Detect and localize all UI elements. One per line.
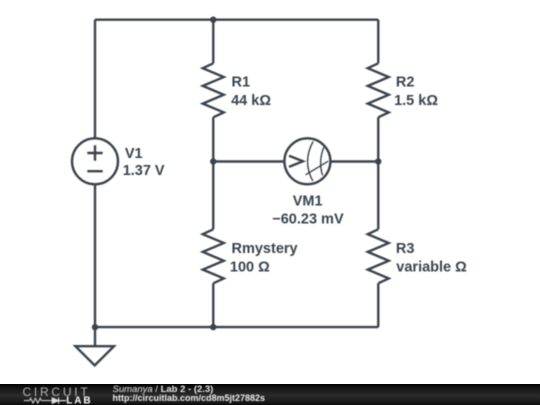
- wire right upper: [377, 20, 379, 64]
- node mid left: [210, 158, 216, 164]
- wire right lower: [377, 283, 379, 327]
- V1 minus sign: [87, 170, 102, 172]
- node top middle: [210, 17, 216, 23]
- VM1 meter arc right: [321, 147, 324, 175]
- wire middle upper: [212, 20, 214, 64]
- resistor Rmystery: [203, 229, 224, 283]
- svg-text:http://circuitlab.com/cd8m5jt2: http://circuitlab.com/cd8m5jt27882s: [113, 393, 266, 403]
- V1 plus sign: [87, 145, 102, 160]
- resistor R3: [368, 229, 389, 283]
- svg-text:1.5 kΩ: 1.5 kΩ: [394, 93, 438, 109]
- svg-text:−60.23 mV: −60.23 mV: [272, 211, 344, 227]
- wire left lower: [94, 184, 96, 327]
- resistor R2: [368, 63, 389, 117]
- wire voltmeter left: [213, 160, 284, 162]
- svg-text:VM1: VM1: [293, 194, 323, 210]
- svg-text:V1: V1: [125, 146, 143, 162]
- voltmeter VM1 circle: [284, 138, 330, 184]
- svg-text:LAB: LAB: [66, 396, 92, 405]
- wire voltmeter right: [330, 160, 378, 162]
- svg-text:variable Ω: variable Ω: [396, 259, 467, 275]
- svg-text:44 kΩ: 44 kΩ: [231, 93, 271, 109]
- node bottom middle: [210, 324, 216, 330]
- svg-text:R3: R3: [396, 241, 415, 257]
- wire middle lower: [212, 283, 214, 327]
- svg-text:R2: R2: [396, 75, 415, 91]
- wire middle mid: [212, 117, 214, 229]
- voltage source V1 circle: [72, 138, 118, 184]
- logo resistor symbol: [24, 398, 52, 403]
- resistor R1: [203, 63, 224, 117]
- wire bottom horizontal: [95, 326, 378, 328]
- VM1 needle: [306, 161, 329, 175]
- node bottom left: [92, 324, 98, 330]
- node mid right: [375, 158, 381, 164]
- logo diode symbol: [52, 398, 66, 404]
- VM1 arrow: [289, 156, 303, 167]
- wire right mid: [377, 117, 379, 229]
- wire top horizontal: [95, 19, 378, 21]
- wire left upper: [94, 20, 96, 139]
- svg-text:100 Ω: 100 Ω: [230, 259, 270, 275]
- footer bar: [0, 384, 540, 405]
- svg-text:1.37 V: 1.37 V: [123, 163, 165, 179]
- ground stem: [94, 327, 96, 346]
- ground triangle: [75, 346, 114, 365]
- svg-text:Rmystery: Rmystery: [232, 241, 298, 257]
- svg-text:R1: R1: [232, 75, 251, 91]
- VM1 meter arc left: [308, 142, 314, 182]
